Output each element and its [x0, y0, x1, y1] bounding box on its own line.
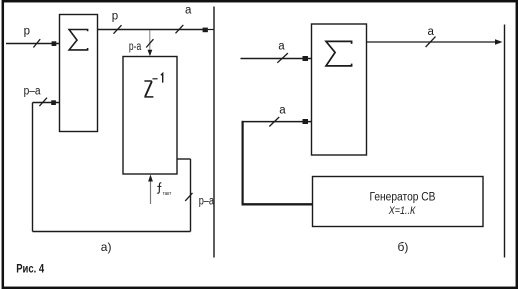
arrowhead into delay block bottom [148, 175, 153, 182]
svg-text:a: a [428, 26, 435, 38]
bus slash on U2 output [426, 37, 436, 47]
svg-text:a: a [185, 4, 192, 16]
svg-text:Рис. 4: Рис. 4 [16, 262, 44, 276]
arrowhead on U2 output [495, 39, 503, 44]
wire: delay output to right feedback rail [177, 158, 191, 160]
right terminal line [504, 25, 506, 258]
wire: U1 output bus (top) [98, 29, 204, 31]
bus slash on feedback input [39, 98, 47, 106]
svg-text:p–a: p–a [199, 195, 215, 207]
wire: feedback p-a into U1 second input [33, 102, 60, 104]
summator U1 sigma label [69, 30, 88, 50]
pin square on input p [52, 41, 57, 46]
svg-text:p–a: p–a [24, 86, 42, 98]
delay element Z^-1 (block) [123, 57, 177, 175]
label f with subscript [157, 183, 161, 193]
wire: U2 output a [367, 41, 497, 43]
wire: drop from top bus into delay block [149, 30, 151, 51]
wire stub from pin to divider [208, 29, 214, 31]
bus slash on right feedback rail [185, 193, 192, 201]
summator U2 sigma label [326, 41, 352, 66]
pin square on U2 bottom input [303, 119, 309, 124]
summator U1 (block) [60, 15, 98, 132]
bus slash p on top wire [114, 25, 122, 34]
divider line between diagrams [213, 7, 215, 258]
svg-text:a: a [278, 40, 285, 52]
svg-text:а): а) [101, 240, 112, 254]
wire: left feedback rail up [32, 103, 34, 232]
svg-text:такт: такт [163, 191, 172, 197]
arrowhead into delay block top [148, 50, 153, 57]
svg-text:Генератор СВ: Генератор СВ [370, 191, 436, 203]
wire: input a into U2 (bottom, from generator) [242, 121, 312, 123]
pin square at end of top bus [203, 28, 208, 33]
bus slash on input p [33, 39, 40, 47]
wire: input a into U2 (top) [241, 58, 312, 60]
bus slash a on top wire [176, 25, 184, 33]
bus slash on U2 bottom input [269, 117, 279, 127]
delay element exponent -1 [153, 78, 158, 80]
svg-text:p: p [24, 25, 30, 37]
svg-text:p: p [112, 10, 118, 22]
pin square on U2 top input [303, 56, 309, 61]
bus slash on U2 top input [277, 53, 288, 63]
wire: generator feedback run to generator block [242, 203, 313, 205]
svg-text:p-a: p-a [129, 41, 142, 53]
svg-text:a: a [279, 104, 286, 116]
wire: input p into U1 [6, 43, 60, 45]
svg-text:Х=1..К: Х=1..К [388, 205, 416, 217]
summator U2 (block) [312, 24, 367, 155]
svg-text:б): б) [398, 240, 409, 254]
generator block (Генератор СВ) [313, 177, 484, 227]
wire: generator feedback rail down [242, 121, 244, 205]
pin square on input p-a [51, 100, 56, 105]
delay element label Z [144, 80, 151, 82]
bus slash on drop wire [146, 39, 153, 47]
wire: right feedback rail down [190, 159, 192, 232]
wire: bottom feedback run [33, 231, 191, 233]
wire: clock input f into delay block bottom [150, 180, 152, 204]
